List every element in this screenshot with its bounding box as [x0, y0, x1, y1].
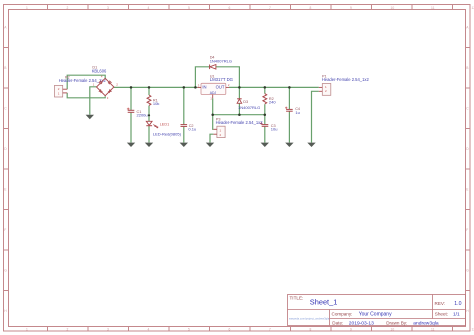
svg-text:4: 4	[148, 328, 150, 332]
bridge diode bottom-left	[99, 90, 102, 93]
wire R1 top branch	[148, 87, 150, 95]
diode D4 1N4007RLG	[210, 56, 232, 70]
wire C2 bottom to ground	[183, 127, 185, 143]
svg-text:5: 5	[188, 328, 190, 332]
svg-text:0.1u: 0.1u	[188, 127, 196, 132]
regulator U1 LM317T DG	[197, 74, 233, 100]
svg-text:F: F	[466, 228, 468, 232]
ground P1	[307, 143, 315, 147]
P3 pin 1 stub	[213, 128, 217, 130]
svg-text:1/1: 1/1	[453, 311, 460, 317]
wire OUT net: U1 OUT to P1 pin1	[229, 86, 319, 88]
svg-text:REV:: REV:	[435, 301, 446, 306]
svg-text:LED-Red(0805): LED-Red(0805)	[153, 132, 182, 137]
wire U1 ADJ pin down to ADJ net	[212, 98, 214, 114]
connector P1 Header-Female 2.54_1x2	[319, 74, 370, 95]
svg-text:andrew3qla: andrew3qla	[413, 321, 439, 327]
wire IN net up to D4 cathode	[195, 67, 209, 88]
svg-text:easyeda.com/project_andrew3qla: easyeda.com/project_andrew3qla	[289, 316, 330, 320]
svg-text:2: 2	[67, 328, 69, 332]
U1 IN pin stub (pin 3)	[197, 86, 201, 88]
svg-text:ADJ: ADJ	[210, 91, 217, 95]
node OUT/D4/D3 junction	[238, 86, 241, 89]
svg-text:3: 3	[107, 6, 109, 10]
capacitor C3 10u polarized	[260, 122, 278, 131]
svg-text:2200u: 2200u	[137, 113, 148, 118]
C1 plus sign	[127, 108, 130, 111]
bridge diode top-right	[108, 81, 111, 84]
svg-text:Drawn By:: Drawn By:	[386, 321, 407, 326]
P2 pin 2 stub	[63, 88, 67, 90]
bridge diode bottom-right	[108, 90, 111, 93]
svg-text:F: F	[4, 228, 6, 232]
svg-text:Sheet:: Sheet:	[435, 311, 448, 316]
wire P2 pin1 to bridge AC2 (bottom)	[67, 93, 105, 98]
svg-text:IN: IN	[202, 85, 206, 90]
svg-text:10: 10	[391, 6, 395, 10]
svg-text:10k: 10k	[153, 101, 159, 106]
connector P3 Header-Female 2.54_1x2	[213, 117, 263, 137]
node ADJ/R2/C3 junction	[264, 113, 267, 116]
wire C3 bottom to ground	[264, 127, 266, 143]
svg-text:2: 2	[67, 6, 69, 10]
ground LED1	[145, 143, 153, 147]
svg-text:Company:: Company:	[332, 311, 353, 316]
svg-text:11: 11	[431, 328, 435, 332]
svg-text:5: 5	[188, 6, 190, 10]
svg-text:3: 3	[107, 328, 109, 332]
wire P2 pin2 to bridge AC1 (top)	[67, 75, 105, 89]
wire D3 anode down to ADJ net	[238, 103, 240, 114]
svg-text:1: 1	[26, 328, 28, 332]
wire C1 bottom to ground	[130, 113, 132, 143]
wire IN net: bridge positive to U1 IN	[114, 86, 197, 88]
svg-text:8: 8	[310, 328, 312, 332]
svg-text:D3: D3	[243, 100, 248, 104]
ground C2	[180, 143, 188, 147]
wire LED1 cathode to ground	[148, 126, 150, 143]
wire C4 bottom to ground	[288, 111, 290, 142]
U1 OUT pin stub (pin 2)	[226, 86, 229, 88]
svg-text:8: 8	[310, 6, 312, 10]
svg-text:10u: 10u	[271, 127, 278, 132]
bridge rectifier D1 KBL606	[92, 65, 119, 100]
wire ADJ net down to C3	[264, 115, 266, 125]
bridge diode top-left	[99, 81, 102, 84]
U1 ADJ pin stub (pin 1)	[212, 95, 214, 99]
wire bridge negative to ground	[90, 87, 97, 115]
LED1 emission arrows	[153, 124, 158, 127]
node IN/D4 junction	[194, 86, 197, 89]
svg-text:G: G	[466, 269, 469, 273]
C4 plus sign	[285, 107, 287, 109]
svg-text:1N4007RLG: 1N4007RLG	[238, 105, 260, 110]
node OUT/R2 junction	[264, 86, 267, 89]
svg-text:6: 6	[229, 328, 231, 332]
svg-text:7: 7	[269, 6, 271, 10]
ground at bridge negative	[86, 115, 94, 119]
wire P3 pin1 to ADJ net	[212, 115, 215, 130]
svg-text:9: 9	[350, 328, 352, 332]
node ADJ/D3 junction	[238, 113, 241, 116]
node R1/LED1 junction	[148, 114, 150, 116]
wire P3 pin2 to ground	[210, 134, 213, 142]
wire D4 anode over and down to OUT net	[216, 67, 240, 88]
svg-text:OUT: OUT	[216, 85, 225, 90]
svg-text:Your Company: Your Company	[359, 311, 392, 317]
P2 pin 1 stub	[63, 92, 67, 94]
node IN/R1 junction	[148, 86, 151, 89]
connector P2 Header-Female 2.54_1x2	[55, 75, 107, 97]
svg-text:1N4007RLG: 1N4007RLG	[210, 58, 232, 63]
P3 pin 2 stub	[213, 133, 217, 135]
P1 pin 2 stub	[319, 90, 323, 92]
ground C4	[285, 143, 293, 147]
wire OUT net down to D3 cathode	[238, 87, 240, 98]
svg-text:4: 4	[148, 6, 150, 10]
svg-text:Sheet_1: Sheet_1	[310, 297, 338, 306]
capacitor C4 1u	[285, 107, 300, 115]
svg-text:Header-Female 2.54_1x2: Header-Female 2.54_1x2	[322, 77, 370, 82]
node IN/C1 junction	[130, 86, 133, 89]
LED LED1 LED-Red(0805)	[146, 121, 181, 136]
svg-text:1: 1	[26, 6, 28, 10]
wire C1 top branch	[130, 87, 132, 110]
title block	[288, 295, 466, 326]
wire ADJ net horizontal	[213, 114, 265, 116]
ground C1	[127, 143, 135, 147]
svg-text:9: 9	[350, 6, 352, 10]
wire R1 bottom to LED1 anode	[148, 106, 150, 122]
svg-text:1u: 1u	[295, 110, 299, 115]
svg-text:7: 7	[269, 328, 271, 332]
capacitor C1 2200u polarized	[127, 108, 148, 118]
svg-text:TITLE:: TITLE:	[290, 295, 304, 300]
resistor R2 240	[263, 94, 276, 105]
wire P1 pin2 to ground	[312, 91, 319, 142]
C3 plus sign	[260, 122, 263, 125]
svg-text:2019-03-13: 2019-03-13	[349, 321, 374, 327]
wire R2 bottom to ADJ net	[264, 104, 266, 115]
ground C3	[261, 143, 269, 147]
node OUT/C4 junction	[288, 86, 291, 89]
svg-text:Header-Female 2.54_1x2: Header-Female 2.54_1x2	[216, 120, 264, 125]
svg-text:240: 240	[269, 100, 276, 105]
svg-text:LM317T DG: LM317T DG	[210, 77, 234, 82]
svg-text:KBL606: KBL606	[92, 68, 107, 73]
svg-text:10: 10	[391, 328, 395, 332]
svg-text:Date:: Date:	[332, 321, 343, 326]
ground P3	[206, 143, 214, 147]
wire R2 top branch from OUT net	[264, 87, 266, 93]
svg-text:6: 6	[229, 6, 231, 10]
node ADJ/P3 junction	[211, 113, 214, 116]
P1 pin 1 stub	[319, 86, 323, 88]
svg-text:11: 11	[431, 6, 435, 10]
svg-text:LED1: LED1	[160, 122, 170, 126]
node IN/C2 junction	[183, 86, 186, 89]
svg-text:G: G	[4, 269, 7, 273]
wire C2 top branch	[183, 87, 185, 124]
diode D3 1N4007RLG	[237, 99, 260, 110]
wire C4 top branch from OUT net	[288, 87, 290, 109]
svg-text:1.0: 1.0	[454, 301, 461, 307]
capacitor C2 0.1u	[181, 124, 197, 132]
resistor R1 10k	[147, 95, 159, 106]
